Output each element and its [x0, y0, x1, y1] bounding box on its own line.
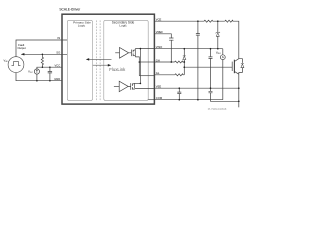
svg-text:VCC: VCC: [55, 64, 61, 68]
svg-text:VCE: VCE: [156, 18, 162, 22]
svg-text:SO: SO: [56, 51, 60, 55]
svg-text:SCALE-iDriver: SCALE-iDriver: [59, 7, 81, 11]
svg-text:VEE: VEE: [156, 85, 162, 89]
svg-text:GND: GND: [54, 77, 60, 81]
svg-text:Logic: Logic: [78, 24, 86, 28]
svg-text:VISO: VISO: [156, 45, 162, 49]
svg-text:PI-7909-032818: PI-7909-032818: [208, 107, 227, 111]
svg-text:VREF: VREF: [156, 30, 164, 34]
svg-text:Logic: Logic: [119, 24, 127, 28]
svg-text:GH: GH: [156, 58, 160, 62]
svg-text:FluxLink: FluxLink: [109, 67, 126, 72]
svg-text:GL: GL: [156, 71, 160, 75]
svg-text:IN: IN: [58, 36, 61, 40]
svg-text:VISO: VISO: [216, 51, 221, 55]
svg-text:COM: COM: [156, 96, 163, 100]
svg-text:Output: Output: [18, 46, 26, 50]
